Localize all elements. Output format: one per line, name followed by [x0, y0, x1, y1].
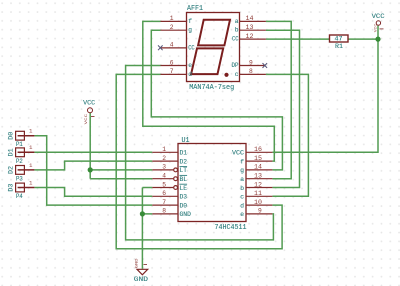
AFF1 pin 8 c stub [240, 73, 266, 75]
U1 pin 10 stub [246, 204, 272, 206]
wire net e U1 pin9 to display pin6 [126, 66, 274, 240]
U1 pin 12 stub [246, 187, 272, 189]
svg-text:P1: P1 [16, 141, 23, 148]
svg-text:D2: D2 [8, 166, 15, 174]
wire net c U1 pin11 to display pin8 [266, 74, 309, 196]
wire net f U1 pin15 to display pin1 [143, 21, 274, 161]
svg-text:1: 1 [29, 162, 33, 169]
no-connect X on AFF1 pin 9 [263, 63, 268, 68]
svg-text:D2: D2 [180, 158, 188, 165]
svg-text:8: 8 [249, 68, 253, 75]
connector P1 [8, 128, 35, 149]
connector P2 [8, 144, 35, 165]
wire net display CC pin12 to R1 [266, 38, 330, 40]
AFF1 pin 1 f stub [161, 20, 187, 22]
U1 pin 6 stub [152, 195, 178, 197]
connector P3 [8, 162, 35, 183]
svg-text:13: 13 [246, 24, 254, 31]
svg-text:GND: GND [135, 258, 139, 269]
U1 pin 5 stub with bubble [152, 187, 173, 189]
connector P4 [8, 179, 35, 200]
AFF1 pin 13 b stub [240, 29, 266, 31]
svg-text:D1: D1 [8, 148, 15, 156]
svg-text:MAN74A-7seg: MAN74A-7seg [189, 84, 234, 92]
svg-text:7: 7 [170, 68, 174, 75]
svg-text:D3: D3 [180, 194, 188, 201]
AFF1 pin 9 DP stub [240, 65, 265, 67]
svg-text:1: 1 [29, 128, 33, 135]
svg-text:CC: CC [188, 44, 195, 51]
7-segment display AFF1 box [187, 13, 240, 82]
AFF1 pin 4 CC stub [161, 47, 187, 49]
AFF1 pin 12 CC stub [240, 38, 266, 40]
U1 pin 1 stub [152, 151, 178, 153]
AFF1 pin 14 a stub [240, 20, 266, 22]
supply symbol VCC right [372, 13, 385, 32]
svg-text:e: e [188, 62, 192, 69]
svg-text:a: a [235, 18, 239, 25]
svg-text:f: f [240, 158, 244, 165]
supply symbol VCC left [83, 100, 95, 125]
svg-text:74HC4511: 74HC4511 [215, 224, 247, 232]
svg-text:VCC: VCC [85, 113, 89, 124]
svg-text:GND: GND [134, 276, 148, 283]
wire net b U1 pin12 to display pin13 [266, 30, 300, 187]
U1 pin 14 stub [246, 169, 272, 171]
svg-text:1: 1 [29, 179, 33, 186]
svg-text:16: 16 [254, 146, 262, 153]
svg-text:14: 14 [246, 15, 254, 22]
svg-text:P3: P3 [16, 175, 23, 182]
svg-text:14: 14 [254, 164, 262, 171]
U1 pin 11 stub [246, 195, 272, 197]
svg-text:1: 1 [162, 146, 166, 153]
svg-text:g: g [240, 167, 244, 174]
AFF1 segment bottom parallelogram [191, 48, 223, 74]
svg-text:VCC: VCC [232, 150, 244, 157]
svg-text:P2: P2 [16, 158, 23, 165]
svg-text:VCC: VCC [372, 13, 385, 20]
svg-text:5: 5 [162, 181, 166, 188]
U1 pin 2 stub [152, 160, 178, 162]
U1 pin 8 stub [152, 213, 178, 215]
svg-text:12: 12 [246, 33, 254, 40]
svg-text:b: b [235, 27, 239, 34]
svg-text:2: 2 [170, 24, 174, 31]
resistor R1 [330, 35, 349, 50]
svg-text:D0: D0 [8, 132, 15, 140]
svg-text:9: 9 [249, 59, 253, 66]
wire net VCC right rail to U1 pin16 [272, 26, 378, 153]
svg-text:c: c [240, 194, 244, 201]
AFF1 segment top parallelogram [198, 20, 230, 46]
svg-text:LE: LE [180, 185, 188, 192]
wire net VCC left to U1 pins 3,4 [90, 113, 152, 179]
svg-text:LT: LT [180, 167, 188, 174]
svg-text:VCC: VCC [83, 100, 95, 107]
svg-text:f: f [188, 18, 192, 25]
svg-text:13: 13 [254, 173, 262, 180]
svg-text:8: 8 [162, 208, 166, 215]
U1 pin 4 stub with bubble [152, 178, 173, 180]
svg-text:4: 4 [162, 173, 166, 180]
svg-text:2: 2 [162, 155, 166, 162]
svg-text:a: a [240, 176, 244, 183]
svg-text:1: 1 [29, 144, 33, 151]
svg-text:1: 1 [170, 15, 174, 22]
wire net P2 to U1 pin1 D1 [34, 151, 152, 153]
U1 pin 13 stub [246, 178, 272, 180]
svg-text:P4: P4 [16, 193, 23, 200]
wire net GND U1 pins 5,8 to GND symbol [142, 188, 152, 269]
U1 pin 15 stub [246, 160, 272, 162]
svg-text:D1: D1 [180, 150, 188, 157]
U1 pin 16 stub [246, 151, 272, 153]
svg-text:15: 15 [254, 155, 262, 162]
svg-text:4: 4 [170, 42, 174, 49]
svg-text:AFF1: AFF1 [187, 5, 203, 13]
ground symbol GND [134, 258, 148, 284]
U1 pin 3 stub with bubble [152, 169, 173, 171]
svg-text:6: 6 [162, 190, 166, 197]
wire net d U1 pin10 to display pin7 [116, 74, 282, 248]
AFF1 pin 2 g stub [161, 29, 187, 31]
svg-text:DP: DP [232, 62, 239, 69]
svg-text:12: 12 [254, 181, 262, 188]
AFF1 pin 6 e stub [161, 65, 187, 67]
svg-text:R1: R1 [335, 43, 343, 50]
AFF1 pin 7 d stub [161, 73, 187, 75]
svg-text:VCC: VCC [375, 23, 379, 32]
wire net P1 to U1 pin7 D0 [34, 136, 152, 205]
svg-text:10: 10 [254, 199, 262, 206]
svg-text:D3: D3 [8, 183, 15, 191]
junction VCC left at pin3 row [88, 167, 93, 172]
U1 pin 9 stub [246, 213, 272, 215]
svg-text:6: 6 [170, 59, 174, 66]
IC U1 box [178, 144, 246, 222]
wire net P4 to U1 pin6 D3 [34, 188, 152, 197]
svg-text:g: g [188, 27, 192, 34]
junction GND at pin8 row [140, 211, 145, 216]
svg-text:U1: U1 [182, 137, 190, 145]
svg-text:7: 7 [162, 199, 166, 206]
svg-text:e: e [240, 211, 244, 218]
wire net g U1 pin14 to display pin2 [151, 30, 282, 170]
svg-text:9: 9 [258, 208, 262, 215]
wire net P3 to U1 pin2 D2 [34, 161, 152, 170]
AFF1 decimal point [224, 73, 228, 77]
wire net a U1 pin13 to display pin14 [266, 21, 291, 178]
junction R1 to VCC rail [375, 37, 380, 42]
svg-text:c: c [235, 71, 239, 78]
svg-text:d: d [188, 71, 192, 78]
no-connect X on AFF1 pin 4 [158, 45, 163, 50]
svg-text:D0: D0 [180, 202, 188, 209]
svg-text:CC: CC [232, 36, 239, 43]
svg-text:47: 47 [335, 35, 343, 42]
svg-text:BL: BL [180, 176, 188, 183]
svg-text:3: 3 [162, 164, 166, 171]
U1 pin 7 stub [152, 204, 178, 206]
svg-text:GND: GND [180, 211, 192, 218]
svg-text:d: d [240, 202, 244, 209]
svg-text:11: 11 [254, 190, 262, 197]
svg-text:b: b [240, 185, 244, 192]
